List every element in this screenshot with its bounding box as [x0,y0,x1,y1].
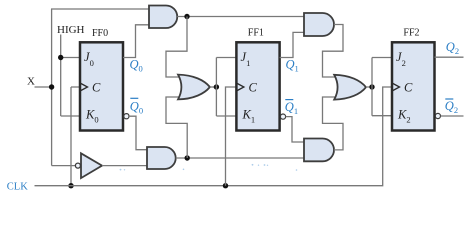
pin Q0bar bubble [124,114,129,119]
node CLK-C1 junction [223,183,228,188]
node G1 output junction [184,14,189,19]
svg-text:C: C [92,80,101,94]
wire K0 input [61,115,81,117]
overbar of Q2bar [445,98,453,100]
and-gate G4 [304,13,334,36]
wire G3 output long run to AND G6 lower input [176,157,305,159]
node G5 output junction [369,84,374,89]
wire G3 staircase to OR G2 bottom input [166,97,187,158]
wire inverter output to AND G3 lower input [102,165,148,167]
flip-flop FF2 box [392,42,435,130]
pin Q1bar bubble [280,114,285,119]
wire G4 staircase to OR G5 top input [323,25,344,78]
wire G1 staircase to OR G2 top input [166,17,187,78]
pin Q2bar bubble [435,113,440,118]
wire G1 output to AND G4 top input [177,16,304,18]
wire C0 clock riser [71,87,81,186]
wire G6 staircase to OR G5 bottom input [323,97,344,150]
svg-text:CLK: CLK [7,182,28,193]
wire Q2bar output [441,115,464,117]
wire HIGH vertical [60,35,62,117]
node X junction [49,84,54,89]
wire Q0bar to AND G3 upper input [129,116,148,150]
wire G2 output [210,86,217,88]
flip-flop FF0 box [80,42,123,130]
and-gate G3 [147,147,176,169]
wire G5 output [366,86,372,88]
wire inverter input [52,165,76,167]
node CLK-C0 junction [68,183,73,188]
wire Q2 output [435,56,464,58]
wire J0 input [61,57,81,59]
svg-text:C: C [404,80,413,94]
overbar of Q1bar [285,99,293,101]
overbar of Q0bar [130,97,138,99]
node G2 output junction [214,84,219,89]
and-gate G1 [149,6,177,29]
wire X input horizontal [35,86,52,88]
wire G5 to J2 and K2 [372,58,393,116]
wire C1 clock riser [226,87,237,186]
or-gate G2 [178,75,210,100]
wire G2 to J1 and K1 [216,58,237,117]
wire CLK bus to FF2 clock [35,87,393,186]
wire X vertical trunk [51,9,53,166]
svg-text:FF2: FF2 [403,27,419,38]
wire Q1bar to AND G6 upper input [286,117,305,142]
inverter G7 [75,153,102,178]
wire Q1 to AND G4 lower input [280,32,305,57]
node HIGH-J0 junction [58,55,63,60]
wire X top run to AND G1 [51,8,150,10]
wire Q0 to AND G1 lower input [123,25,150,58]
svg-text:FF0: FF0 [92,28,108,39]
faint artifact specks [120,164,298,171]
or-gate G5 [334,75,366,100]
svg-text:X: X [27,76,35,88]
flip-flop FF1 box [236,42,279,130]
node G3 output junction [185,155,190,160]
svg-text:C: C [249,80,258,94]
and-gate G6 [304,139,334,162]
svg-text:FF1: FF1 [248,27,264,38]
svg-text:HIGH: HIGH [57,24,85,36]
